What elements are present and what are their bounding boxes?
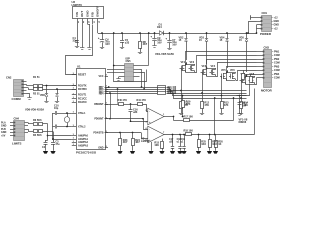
svg-text:RB0/INT: RB0/INT (94, 103, 104, 106)
svg-text:XTAL1: XTAL1 (78, 112, 86, 115)
svg-text:+: + (149, 138, 151, 142)
capacitor C10 label (54, 105, 59, 111)
crystal Q1 (64, 112, 69, 127)
wire ISP gnd (116, 77, 120, 81)
capacitor C16 (129, 104, 133, 121)
capacitor C18 label (177, 139, 182, 143)
ground U2 pin3 (87, 46, 91, 50)
svg-text:GND: GND (274, 20, 280, 23)
wire gate column 2 (201, 72, 203, 94)
wire R3 to C2 and AN0 (47, 124, 72, 141)
wire U2 pin1 to ground (77, 24, 79, 45)
svg-text:OUT: OUT (80, 11, 84, 17)
voltage regulator U2 body (73, 7, 104, 19)
ground R23 (117, 151, 122, 154)
svg-text:GND: GND (274, 24, 280, 27)
wire ISP left3 (107, 72, 121, 74)
wire U1 PD0 feedback (105, 118, 148, 130)
capacitor C16 label (133, 109, 138, 114)
svg-text:LIMITS: LIMITS (12, 141, 22, 145)
svg-text:R17 10K: R17 10K (184, 116, 194, 119)
svg-text:PW2: PW2 (274, 58, 280, 61)
ground C5 (120, 46, 124, 49)
svg-text:16V: 16V (172, 44, 177, 47)
transistor VF8 (249, 73, 255, 84)
svg-text:1K: 1K (218, 143, 221, 146)
svg-text:R1 51: R1 51 (33, 76, 40, 79)
wire sources pair 2 (207, 76, 216, 78)
op-amp U3 label (141, 136, 150, 143)
svg-text:RESET: RESET (78, 74, 87, 77)
CN3 pin stubs (257, 51, 265, 79)
op-amp U3B (146, 126, 166, 143)
svg-text:VF5: VF5 (221, 69, 226, 72)
zener diode VD3 (205, 32, 208, 64)
svg-text:CN1: CN1 (262, 11, 268, 15)
ground C17 (170, 151, 175, 154)
ground C3 (50, 151, 55, 154)
svg-text:47K: 47K (186, 103, 191, 106)
ground R26 (207, 151, 212, 154)
zener diode VD5 (245, 32, 248, 72)
U1 left pins (72, 73, 76, 146)
capacitor C3 (51, 140, 55, 151)
resistor R11 gate pulldown (180, 91, 183, 112)
transistor VF3 (201, 65, 207, 76)
wire ISP vcc loop (113, 32, 147, 81)
capacitor C19 (182, 134, 185, 151)
wire feedback up (173, 117, 175, 121)
ground R12 (200, 112, 204, 115)
ground U2 pin1 (75, 45, 79, 48)
capacitor C11 (53, 125, 72, 129)
ground R20 (213, 151, 218, 154)
wire ISP right1 (140, 70, 143, 88)
svg-text:COM: COM (274, 69, 280, 72)
resistor R18 label (184, 130, 194, 133)
ground C2 (43, 151, 48, 154)
wire R41 to opamp (143, 105, 148, 112)
resistor R15 label (154, 142, 159, 147)
svg-text:VF4: VF4 (211, 65, 216, 68)
wire drains VF5 VF6 (226, 70, 235, 73)
svg-text:COM: COM (274, 62, 280, 65)
resistor R14 label (243, 102, 248, 107)
resistor R40 label (118, 99, 128, 102)
resistor R26 label (212, 141, 217, 146)
wire U2 pin3 down (87, 24, 89, 46)
ground C7 (167, 47, 171, 50)
svg-text:R41 47K: R41 47K (137, 99, 147, 102)
capacitor C14 (238, 96, 242, 113)
resistor R1 label (33, 76, 40, 79)
svg-text:CN2: CN2 (6, 75, 12, 79)
transistor VF1 (180, 61, 186, 72)
resistor R15 (161, 139, 164, 151)
wire ISP left1 (113, 65, 121, 67)
COMM label (12, 97, 22, 101)
zener VD2 label (179, 37, 184, 42)
transistor VF7 (240, 73, 246, 84)
resistor R19 label (186, 101, 191, 106)
wire U2 pin2 down (82, 24, 84, 46)
svg-text:POWER: POWER (260, 32, 272, 36)
wire PD4 row (105, 132, 148, 139)
ground CN2 (27, 96, 31, 100)
wire ISP left2 (107, 69, 121, 71)
svg-text:AN3/PA3: AN3/PA3 (78, 144, 89, 147)
wire motor out pair 4a (246, 75, 257, 85)
resistor R18 (186, 133, 255, 136)
wire drains VF7 VF8 (246, 74, 255, 77)
resistor R1 row (27, 84, 77, 87)
connector CN1 POWER (262, 16, 272, 32)
svg-text:COM: COM (274, 77, 280, 80)
resistor R24 label (135, 139, 140, 144)
diode VD6 (45, 85, 48, 100)
wire C16 to plus (130, 120, 148, 122)
resistor R41 label (137, 99, 147, 102)
resistor R26 (209, 134, 212, 151)
svg-text:U1: U1 (77, 65, 81, 69)
svg-text:47u: 47u (55, 143, 60, 146)
svg-text:R34 100: R34 100 (168, 92, 177, 95)
resistor R3 row (28, 123, 48, 126)
CN4 pins right (25, 123, 29, 133)
svg-text:VF6: VF6 (230, 69, 235, 72)
ground R24 (130, 151, 135, 154)
connector CN3 MOTOR (264, 50, 272, 88)
wire CN2 pin5 gnd (27, 94, 30, 97)
resistor R13 label (224, 102, 229, 107)
svg-text:60N06: 60N06 (239, 120, 247, 124)
wire R4 to C3 and AN1 (52, 132, 72, 141)
wire gate column 4 (240, 80, 242, 99)
svg-text:-: - (149, 110, 150, 114)
capacitor C9 electrolytic (151, 32, 157, 44)
svg-text:R3 5K6: R3 5K6 (33, 119, 42, 122)
zener VD5 label (239, 37, 244, 42)
svg-text:PIC16C73-I/SO: PIC16C73-I/SO (76, 151, 97, 155)
MOTOR label (261, 89, 273, 93)
svg-text:-: - (149, 128, 150, 132)
wire motor out pair 3b (236, 71, 257, 81)
+5V/+12V top rail (98, 33, 257, 35)
resistor R11 label (183, 102, 188, 107)
svg-text:ON/OFF: ON/OFF (96, 6, 100, 17)
wire R40-R41 (124, 103, 138, 105)
resistor R25 label (201, 141, 206, 146)
capacitor C19 label (181, 139, 186, 143)
resistor R21 snubber (242, 70, 245, 79)
resistor R13 gate pulldown (221, 96, 224, 112)
ground R15 (159, 151, 164, 154)
wire drains VF3 VF4 (206, 66, 216, 69)
svg-text:16V: 16V (157, 42, 162, 45)
resistor R2 label (33, 93, 40, 96)
svg-text:10p: 10p (54, 107, 59, 110)
wire R17 vertical right (233, 97, 235, 120)
svg-text:PW1: PW1 (274, 50, 280, 53)
transistor VF5 (220, 69, 227, 80)
connector CN1 label (262, 11, 268, 15)
svg-text:CN4: CN4 (14, 117, 20, 121)
CN1 pin stubs (257, 17, 263, 30)
connector CN2 label (6, 75, 12, 79)
wire sense node (237, 84, 250, 97)
resistor R22 snubber (250, 74, 253, 83)
svg-text:LM358: LM358 (141, 139, 150, 143)
capacitor C10 (53, 111, 72, 115)
transistor VF2 (189, 61, 195, 72)
svg-text:RB4: RB4 (99, 93, 104, 96)
capacitor C17 (171, 134, 174, 151)
ground R25 (196, 151, 201, 154)
svg-text:+12: +12 (274, 28, 279, 31)
CN4 pins left (10, 122, 15, 137)
resistor R20 label (218, 141, 223, 146)
ground C18 (177, 151, 182, 154)
label VF1-V8 60N06 (239, 117, 248, 124)
wire motor out pair 2a (207, 60, 257, 77)
resistor R4 row (28, 129, 53, 133)
capacitor C5 label (125, 39, 130, 44)
wire motor out pair 3a (227, 67, 257, 81)
diode VD6 label (40, 94, 45, 97)
resistor R24 (132, 133, 135, 151)
svg-text:GND: GND (85, 11, 89, 17)
ground C4 (100, 46, 104, 49)
svg-text:R18 10K: R18 10K (184, 130, 194, 133)
resistor R14 gate pulldown (240, 98, 243, 112)
wire CN1 pin2 (247, 22, 256, 34)
resistors R31-R34 labels (168, 87, 177, 95)
ground C19 (181, 151, 186, 154)
ground R11 (179, 112, 183, 115)
gate drive lines (167, 88, 247, 99)
capacitor C1 label (73, 36, 78, 43)
op-amp U3A (146, 108, 166, 125)
svg-text:VCC: VCC (98, 75, 103, 78)
connector CN4 label (14, 117, 20, 121)
diode D1 label (157, 23, 162, 30)
wire output loop right (254, 89, 256, 135)
CN1 pin labels right (272, 16, 280, 30)
wire motor out pair 2b (216, 63, 257, 77)
svg-text:PD0/INT: PD0/INT (94, 118, 104, 121)
svg-text:COMM: COMM (12, 97, 22, 101)
svg-text:CN5: CN5 (126, 60, 132, 63)
wire R40 row (105, 104, 119, 106)
voltage regulator U2 label (72, 0, 83, 7)
svg-text:F/B: F/B (91, 12, 95, 17)
wire crystal caps left (52, 113, 54, 127)
label VD1-VD5 (155, 52, 174, 56)
transistor VF4 (210, 65, 216, 76)
svg-text:u33: u33 (133, 111, 138, 114)
wire motor out pair 1b (195, 56, 257, 73)
CN5 pins left (121, 66, 125, 77)
IC U1 label (77, 65, 81, 69)
svg-text:16V: 16V (105, 43, 110, 46)
capacitor C4 label (105, 38, 110, 46)
svg-text:+: + (149, 120, 151, 124)
ground U2 pin2 (80, 46, 84, 50)
wire U3B output (164, 134, 185, 136)
IC U1 body (77, 69, 106, 150)
svg-text:PD4/STB: PD4/STB (93, 132, 103, 135)
svg-text:4K7: 4K7 (123, 141, 128, 144)
wire crystal down (52, 127, 54, 141)
svg-text:u33: u33 (125, 42, 130, 45)
resistor R2 row (27, 88, 77, 91)
resistor R25 (198, 134, 201, 151)
svg-text:VD6: VD6 (40, 94, 45, 97)
svg-text:4K7: 4K7 (143, 43, 148, 46)
resistor R8 label (143, 41, 148, 46)
wire ISP vcc right (140, 32, 150, 65)
svg-text:1N4: 1N4 (157, 26, 162, 29)
capacitor C2 (44, 140, 48, 151)
wire mid vertical down (214, 97, 216, 134)
capacitor C2 label (42, 146, 46, 149)
wire gate column 3 (221, 76, 223, 96)
svg-text:R4 5K6: R4 5K6 (33, 134, 42, 137)
wire U2 pin4 net to RESET (66, 25, 93, 75)
resistor R17 (174, 119, 234, 122)
connector CN2 body (14, 80, 24, 97)
resistor R40 (119, 103, 124, 106)
resistor R17 label (184, 116, 194, 119)
svg-text:CN3: CN3 (264, 46, 270, 50)
wire sources pair 1 (186, 72, 195, 74)
capacitor C7 electrolytic (166, 32, 172, 46)
svg-text:+5V: +5V (1, 134, 6, 137)
svg-text:33p: 33p (73, 39, 78, 43)
wire CN1 pin1 bar (251, 15, 257, 19)
svg-text:PW3: PW3 (274, 65, 280, 68)
CN2 pins (21, 80, 26, 94)
CN3 pin labels right (272, 50, 280, 79)
svg-text:10K: 10K (154, 144, 159, 147)
wire mid vertical 1 (109, 92, 111, 119)
zener VD3 label (199, 37, 204, 42)
ground R13 (219, 112, 223, 115)
wire CN1 pins34 to rail (256, 25, 258, 34)
svg-text:GND: GND (98, 147, 104, 150)
label VD6-VD9 (25, 107, 44, 111)
capacitor C3 label (55, 141, 60, 146)
connector CN5 ISP label (126, 56, 132, 63)
ground C14 (237, 112, 241, 116)
wire drains VF1 VF2 (185, 62, 194, 65)
LIMITS label (12, 141, 22, 145)
svg-text:RC2/CC: RC2/CC (78, 101, 87, 104)
connector CN3 label (264, 46, 270, 50)
junction dots pwm (108, 86, 119, 90)
resistor R23 label (123, 139, 128, 144)
svg-text:104: 104 (242, 105, 247, 108)
resistor R8 (139, 32, 142, 50)
ground R14 (239, 112, 243, 115)
U1 right pins (105, 75, 108, 149)
capacitor C17 label (169, 139, 174, 143)
svg-text:47K: 47K (204, 104, 209, 107)
capacitor C5 (120, 32, 124, 45)
ground VD6 (44, 100, 48, 103)
ground C9 (152, 44, 156, 48)
svg-text:47K: 47K (224, 104, 229, 107)
wire motor out pair 1a (186, 52, 257, 73)
svg-text:RC1/CC: RC1/CC (78, 98, 87, 101)
ground U3 (148, 151, 153, 154)
zener diode VD2 (184, 32, 187, 60)
wire gate column 1 (180, 68, 182, 91)
wire U3A output (164, 116, 174, 118)
resistors R31-R34 gate (158, 86, 166, 95)
ground R8 (138, 51, 142, 54)
U1 right pin names (93, 75, 104, 150)
svg-text:PW4: PW4 (274, 73, 280, 76)
capacitor C1 plates on pin1 (75, 41, 79, 43)
svg-text:1K6: 1K6 (212, 143, 217, 146)
svg-text:VF2: VF2 (190, 61, 195, 64)
wire U2 pin5 to +5V rail (97, 24, 99, 33)
ground VD7 (55, 100, 59, 103)
svg-text:RC0/T1: RC0/T1 (78, 94, 87, 97)
resistor R20 (215, 135, 218, 151)
diode D1 on rail (158, 31, 165, 35)
svg-text:VD6-VD9 4S/SA: VD6-VD9 4S/SA (25, 107, 44, 111)
diode VD7 (55, 88, 58, 99)
capacitor C18 (178, 134, 181, 151)
svg-text:4K7: 4K7 (135, 141, 140, 144)
capacitor C4 electrolytic (98, 32, 104, 45)
wire motor out pair 4b (255, 78, 257, 85)
U2 pins 1-5 (78, 19, 101, 25)
svg-text:MOTOR: MOTOR (261, 89, 273, 93)
zener diode VD4 (225, 32, 228, 68)
wire mid vertical 2 (117, 89, 119, 104)
capacitor C14 label (242, 102, 247, 107)
CN4 left labels (1, 121, 7, 137)
resistor R12 label (204, 102, 209, 107)
svg-text:1K6: 1K6 (201, 143, 206, 146)
wire sources pair 3 (226, 80, 235, 82)
svg-text:RC7/RX: RC7/RX (78, 88, 87, 91)
transistor VF6 (229, 69, 236, 80)
resistor R12 gate pulldown (201, 93, 204, 112)
svg-text:VD1-VD5 SA50: VD1-VD5 SA50 (155, 52, 174, 56)
wire opamp gnd (151, 142, 153, 151)
U2 pin names (75, 6, 100, 17)
U1 part number (76, 151, 97, 155)
wires U1 PWM outputs (105, 88, 158, 94)
U1 left pin names (78, 74, 89, 148)
resistor R41 (138, 103, 143, 106)
resistor R19 (182, 95, 185, 118)
CN5 pins right (134, 66, 140, 77)
svg-text:COM: COM (274, 54, 280, 57)
svg-text:VIN: VIN (75, 12, 79, 17)
svg-text:XTAL2: XTAL2 (78, 126, 86, 129)
capacitor C9 label (157, 37, 162, 45)
capacitor C7 label (172, 39, 177, 47)
connector CN5 body (125, 64, 134, 82)
resistor R4 label (33, 134, 42, 137)
wire ISP right2 (140, 73, 145, 90)
svg-text:R40 47K: R40 47K (118, 99, 128, 102)
